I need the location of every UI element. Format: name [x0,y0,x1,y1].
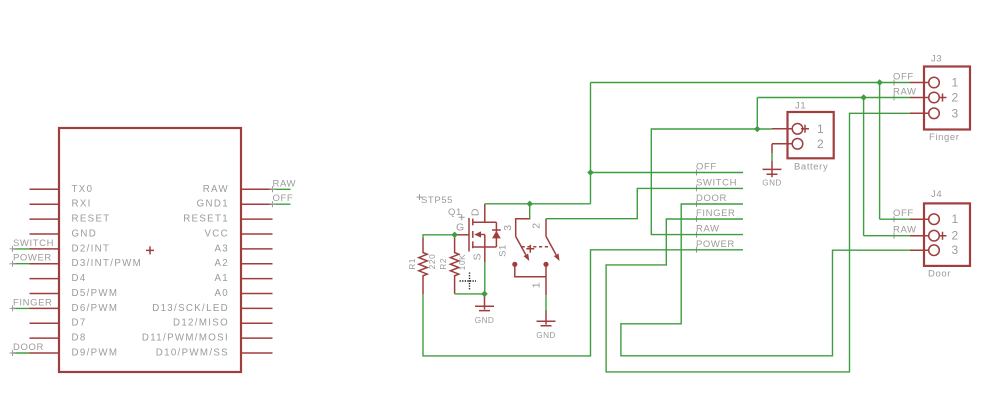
svg-text:FINGER: FINGER [696,208,736,219]
ground symbol GND at battery J1 [763,161,782,177]
svg-text:OFF: OFF [893,72,914,83]
junction dot RAW at J3 [860,94,867,101]
IC left pin stubs [30,189,60,353]
connector J3 pin 1 pad [929,77,940,88]
svg-text:2: 2 [952,229,960,243]
wire source/ground net: R2 bottom, Q1 source, GND [455,262,485,297]
transistor Q1 drain branch [473,204,496,223]
svg-text:SWITCH: SWITCH [13,238,54,249]
svg-text:GND: GND [72,229,98,240]
junction dot ground mid [481,291,488,298]
svg-text:D13/SCK/LED: D13/SCK/LED [152,303,229,314]
svg-text:3: 3 [952,243,960,257]
svg-text:Q1: Q1 [448,207,462,218]
junction dot OFF at J3 [876,79,883,86]
svg-text:J4: J4 [931,189,942,200]
junction dot OFF at stub [587,169,594,176]
svg-text:D7: D7 [72,318,87,329]
wire S1 pin1 to ground [545,295,547,312]
svg-text:R2: R2 [439,258,448,270]
connector J1 body [788,112,834,158]
resistor R1 zigzag 220 [419,238,427,294]
ground symbol GND mid (MOSFET source) [475,294,494,311]
svg-text:D3/INT/PWM: D3/INT/PWM [72,258,143,269]
transistor Q1 source branch [473,247,496,262]
svg-text:S1: S1 [498,244,509,257]
svg-text:Door: Door [928,269,951,280]
svg-text:D8: D8 [72,333,87,344]
svg-text:VCC: VCC [204,229,229,240]
switch S1 common terminals [512,262,517,267]
svg-text:Finger: Finger [929,132,960,143]
svg-text:DOOR: DOOR [696,193,727,204]
svg-text:POWER: POWER [696,239,735,250]
IC right pin names [142,184,229,359]
switch S1 pole 2 arm [546,236,556,254]
wire net OFF stub at IC GND1 pin [273,203,291,205]
svg-text:D6/PWM: D6/PWM [72,303,119,314]
svg-text:OFF: OFF [273,193,294,204]
svg-text:A3: A3 [214,243,229,254]
wire FINGER net: stub to J3 pin3 [606,113,910,372]
dotted origin crosshair [460,273,477,290]
svg-text:D4: D4 [72,273,87,284]
svg-text:G: G [456,222,465,234]
svg-text:J1: J1 [795,101,806,112]
svg-text:POWER: POWER [13,253,52,264]
svg-text:RXI: RXI [72,199,92,210]
connector J3 pin 3 pad [929,108,940,119]
svg-text:D5/PWM: D5/PWM [72,288,119,299]
svg-text:D10/PWM/SS: D10/PWM/SS [156,348,229,359]
wire DOOR net: stub to J4 pin3 [621,204,910,356]
connector J4 pin 3 pad [929,245,940,256]
svg-text:2: 2 [531,222,543,228]
junction dot gate net [451,232,458,239]
junction dot OFF at drain [527,201,534,208]
resistor R2 zigzag 10K [450,238,458,294]
svg-text:D: D [470,208,482,216]
svg-text:10K: 10K [458,254,467,270]
transistor Q1 channel segments [472,219,474,249]
svg-text:RESET1: RESET1 [183,214,229,225]
svg-text:STP55: STP55 [421,195,453,206]
wire net FINGER stub at D6/PWM [13,307,30,309]
IC U1 origin cross [146,246,154,254]
wire RAW net: stub to J1 pin1, J3 pin2, J4 pin2 [651,98,910,236]
svg-text:A1: A1 [214,273,229,284]
svg-text:FINGER: FINGER [13,297,53,308]
connector J3 body [924,67,970,130]
wire gate net: R1 top to R2 top to Q1 gate [423,235,455,238]
transistor Q1 body diode [492,231,501,239]
svg-text:GND: GND [762,179,781,188]
svg-text:1: 1 [952,212,960,226]
switch S1 pin 3 lead [516,219,531,237]
svg-text:A2: A2 [214,258,229,269]
svg-text:3: 3 [502,224,514,230]
svg-text:GND: GND [475,316,494,325]
svg-text:1: 1 [952,76,960,90]
IC U1 Arduino Pro Mini body [59,128,241,372]
wire net DOOR stub at D9/PWM [13,352,30,354]
svg-text:OFF: OFF [696,162,717,173]
wire net RAW stub at IC RAW pin [273,188,291,190]
wire net POWER stub at D3 [13,263,30,265]
switch S1 coupling dashed link [522,246,551,248]
switch S1 common bar and pin 1 [515,264,546,295]
svg-text:S: S [472,253,484,261]
switch S1 origin cross [526,245,534,253]
wire net SWITCH stub at D2/INT [13,248,30,250]
svg-text:Battery: Battery [794,162,828,173]
svg-text:2: 2 [817,137,825,151]
svg-text:D12/MISO: D12/MISO [173,318,229,329]
svg-text:1: 1 [531,282,543,288]
svg-text:RAW: RAW [893,87,917,98]
transistor Q1 gate pin [455,234,469,236]
connector J1 pin 2 pad [792,139,803,150]
svg-text:RAW: RAW [893,225,917,236]
svg-text:RESET: RESET [72,214,111,225]
connector J4 pin 2 pad [929,230,940,241]
svg-text:SWITCH: SWITCH [696,177,737,188]
switch S1 pin 2 lead [545,219,547,237]
wire SWITCH net: S1 pin2 to stub [546,188,743,218]
IC left pin names [72,184,143,359]
svg-text:1: 1 [817,122,825,136]
connector J3 pin 2 pad [929,92,940,103]
transistor Q1 MOSFET gate line [468,218,470,252]
wire OFF net: MOSFET drain to S1 pin3 and up-right [485,83,910,220]
svg-text:RAW: RAW [273,178,297,189]
connector J4 pin 1 pad [929,214,940,225]
junction dot RAW at J1 [754,126,761,132]
svg-text:GND: GND [536,331,555,340]
svg-text:OFF: OFF [893,208,914,219]
connector J4 body [924,203,970,266]
svg-text:TX0: TX0 [72,184,94,195]
transistor Q1 source arrow [474,231,481,237]
connector J1 pin 1 pad [792,124,803,135]
wire J1 pin2 to ground [771,153,773,161]
IC right pin stubs [241,189,273,353]
svg-text:A0: A0 [214,288,229,299]
svg-text:DOOR: DOOR [13,342,44,353]
switch S1 pole 3 arm [516,236,526,254]
transistor Q1 body diode rail [495,222,497,247]
svg-text:R1: R1 [408,258,417,270]
svg-text:D9/PWM: D9/PWM [72,348,119,359]
svg-text:2: 2 [952,91,960,105]
svg-text:220: 220 [428,254,437,269]
ground symbol GND at S1 pin1 [537,310,556,326]
svg-text:J3: J3 [931,54,942,65]
wire POWER net: stub to R1 bottom [423,250,743,356]
svg-text:RAW: RAW [696,224,720,235]
svg-text:D11/PWM/MOSI: D11/PWM/MOSI [142,333,229,344]
svg-text:GND1: GND1 [197,199,229,210]
svg-text:D2/INT: D2/INT [72,243,111,254]
svg-text:RAW: RAW [203,184,229,195]
svg-text:3: 3 [952,106,960,120]
